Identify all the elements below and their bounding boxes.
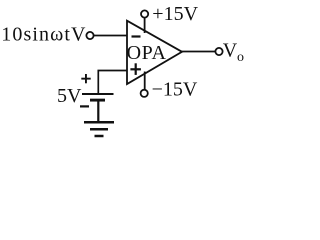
battery 5V short plate: [90, 99, 105, 102]
op-amp U1 triangle: [127, 21, 182, 84]
-15V supply stem: [144, 72, 146, 90]
svg-text:o: o: [237, 50, 244, 65]
svg-text:−15V: −15V: [152, 78, 198, 100]
wire battery to ground: [97, 102, 99, 123]
output terminal: [215, 48, 222, 55]
wire output: [181, 51, 215, 53]
svg-text:+15V: +15V: [152, 3, 198, 25]
battery plus sign: [81, 74, 90, 83]
ground: [84, 122, 114, 136]
-15V terminal: [141, 90, 148, 97]
svg-text:V: V: [223, 40, 238, 62]
svg-text:OPA: OPA: [127, 42, 167, 64]
input terminal: [86, 32, 93, 39]
battery minus sign: [80, 105, 89, 107]
+15V supply stem: [144, 18, 146, 33]
battery 5V long plate: [82, 93, 114, 95]
svg-text:5V: 5V: [57, 85, 82, 107]
op-amp plus label: [130, 63, 141, 75]
wire inverting input: [94, 35, 127, 37]
+15V terminal: [141, 10, 148, 17]
wire noninverting input: [98, 71, 127, 94]
svg-text:10sinωtV: 10sinωtV: [1, 24, 86, 46]
op-amp minus label: [132, 35, 141, 37]
